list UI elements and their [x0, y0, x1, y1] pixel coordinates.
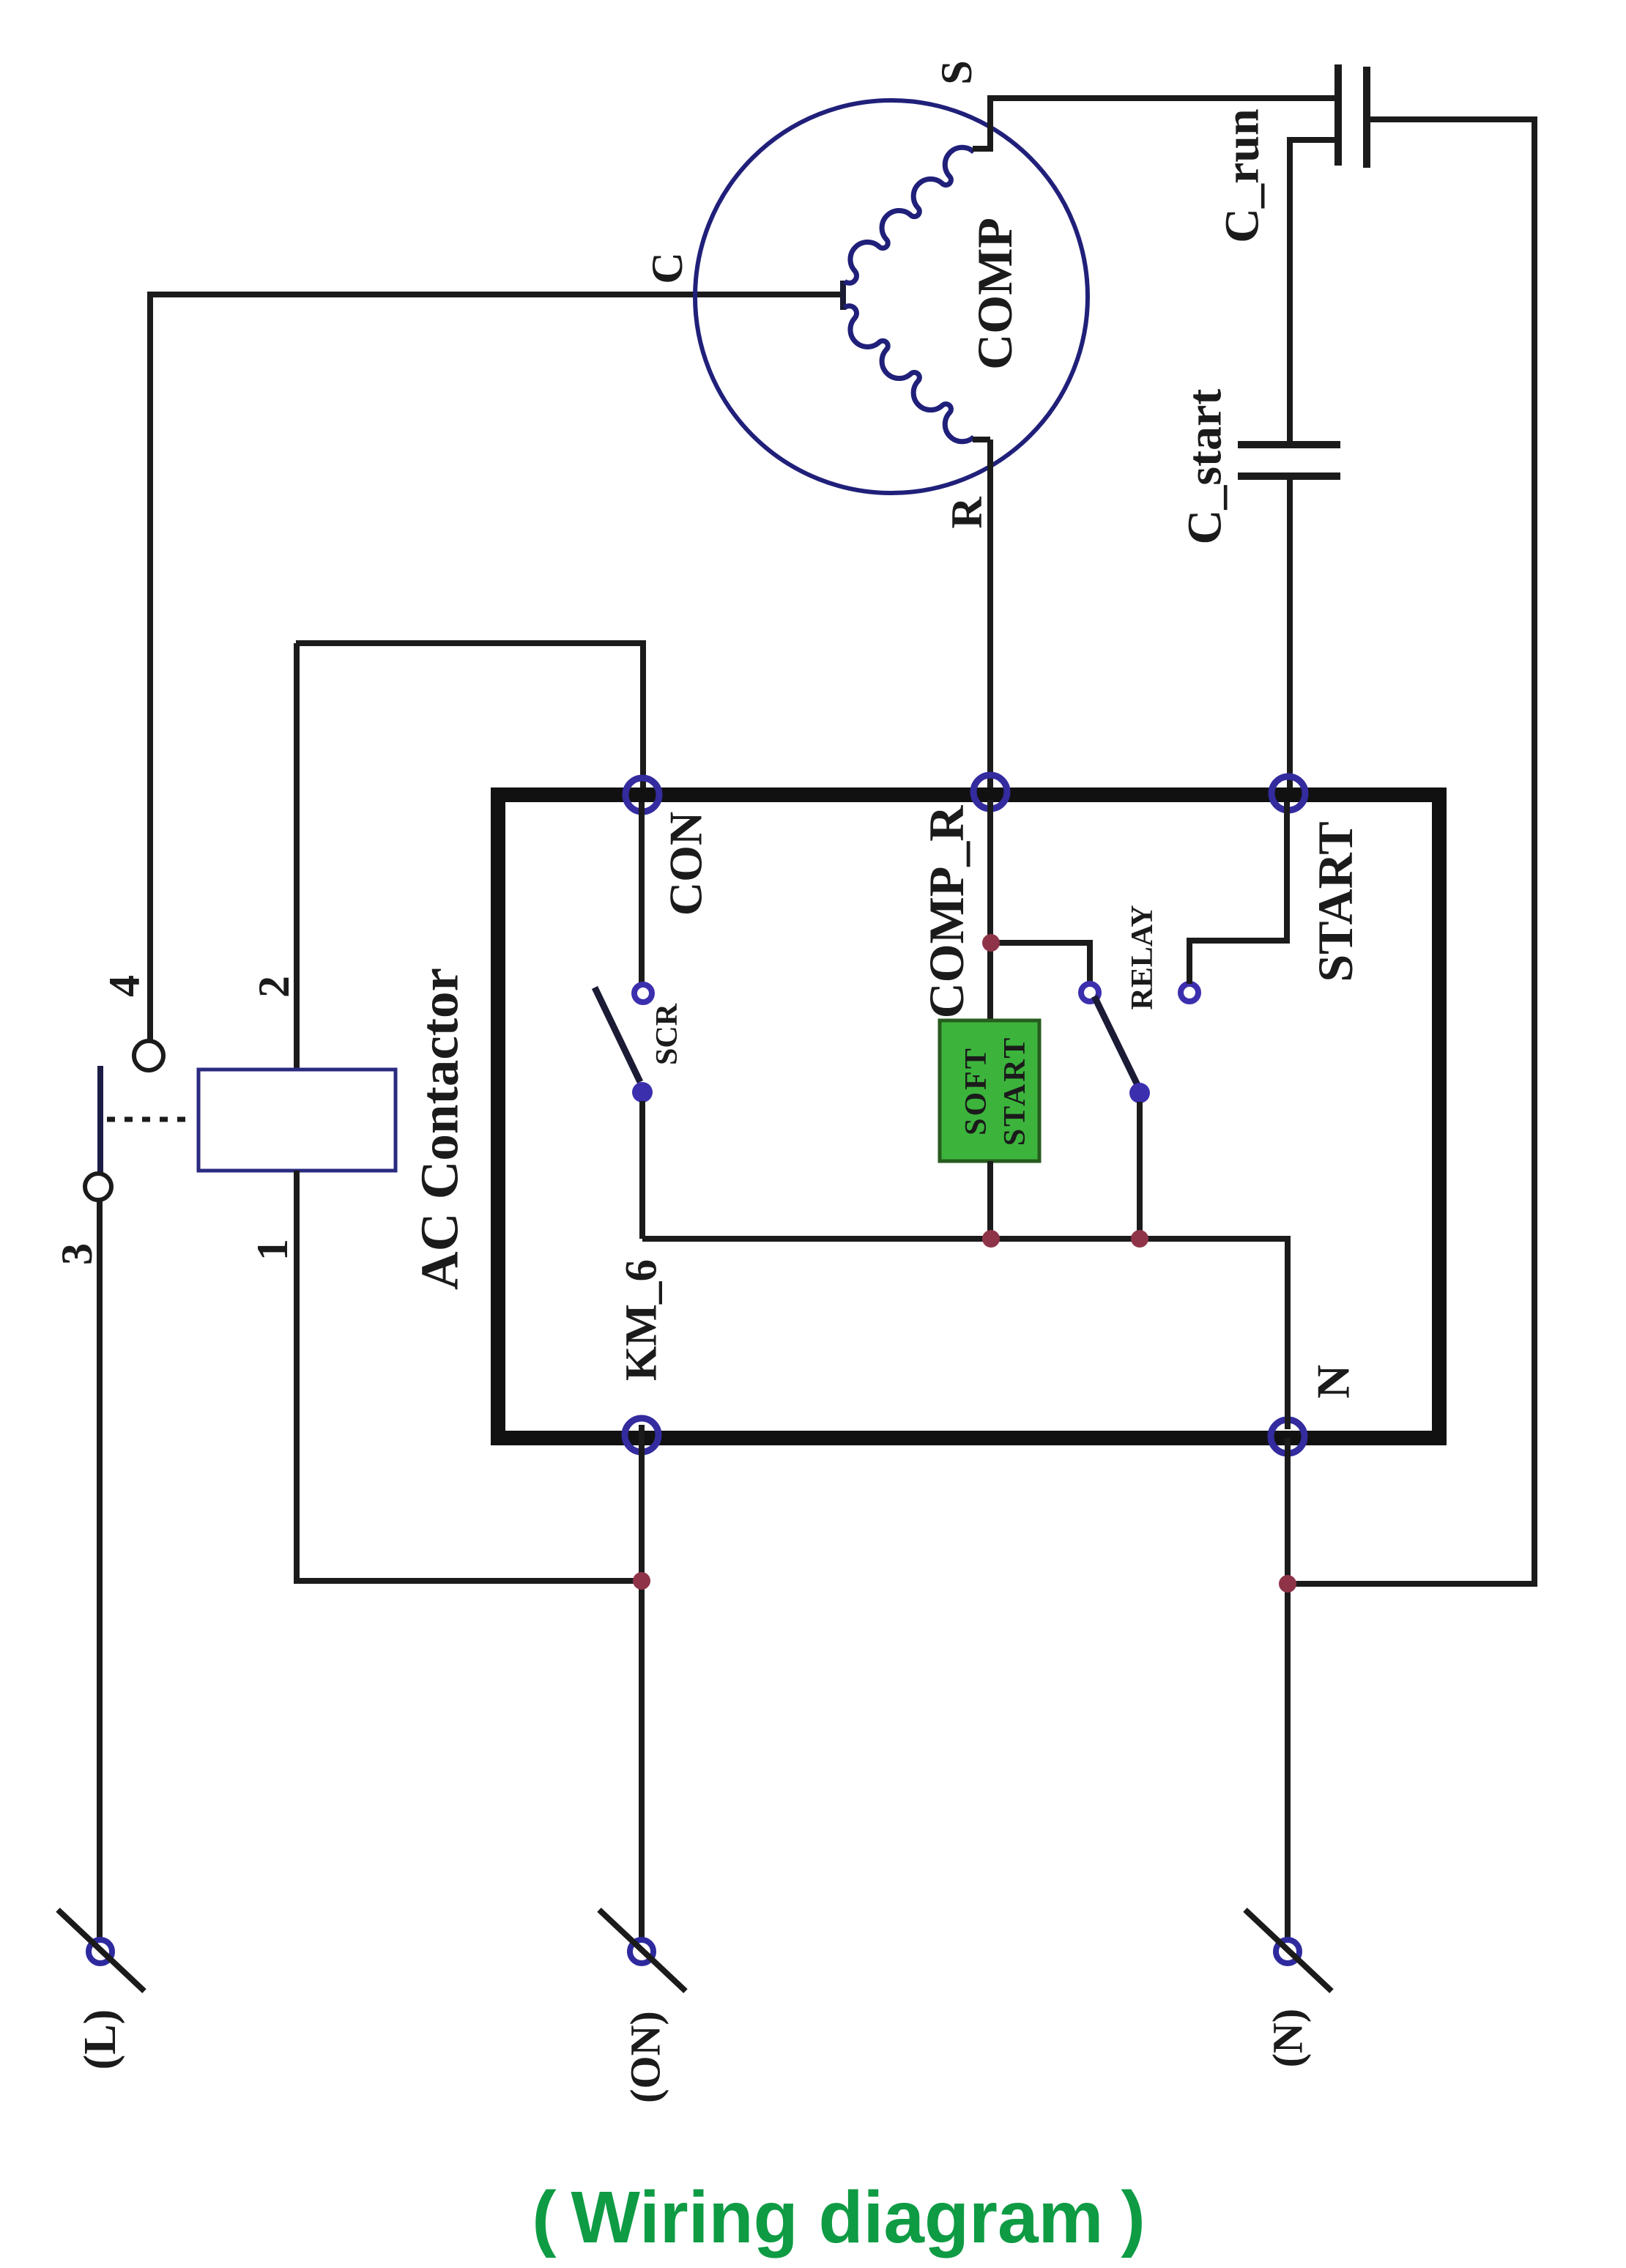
wire CON drop to SCR: [639, 802, 645, 984]
wire 2 vertical: [294, 643, 300, 1070]
control box: [498, 795, 1439, 1438]
wire relay common down: [1137, 1102, 1143, 1239]
SCR lower contact: [632, 1082, 653, 1102]
wire left drop to contact 4: [150, 294, 153, 1041]
wire R vertical to COMP_R terminal: [987, 440, 993, 791]
wire C_run right to edge: [1292, 119, 1534, 1584]
junction dot COMP_R branch: [982, 934, 1000, 952]
contact 3 circle: [85, 1174, 111, 1200]
terminal ON slash: [599, 1910, 686, 1991]
wire C_run left branch down: [1290, 140, 1335, 448]
AC contactor coil box: [198, 1070, 396, 1171]
svg-text:START: START: [1307, 821, 1363, 982]
svg-text:3: 3: [53, 1243, 101, 1265]
soft start box: [940, 1020, 1039, 1161]
junction dot soft start bottom: [982, 1230, 1000, 1248]
svg-text:KM_6: KM_6: [617, 1259, 667, 1381]
terminal CON: [625, 778, 659, 812]
relay left contact: [1081, 984, 1099, 1001]
AC contactor blade: [97, 1066, 103, 1172]
terminal N slash: [1245, 1910, 1332, 1991]
motor COMP circle: [695, 100, 1088, 493]
svg-text:R: R: [943, 497, 991, 529]
junction dot N column: [1279, 1575, 1296, 1593]
motor upper winding: [844, 147, 974, 283]
motor center tap bar: [840, 281, 846, 310]
relay right contact: [1181, 984, 1198, 1001]
svg-text:CON: CON: [660, 812, 712, 916]
svg-text:1: 1: [248, 1239, 297, 1261]
SCR upper contact: [634, 985, 652, 1002]
wire bottom inner run: [642, 1239, 1288, 1429]
junction dot KM_6 column: [633, 1572, 650, 1590]
svg-text:C: C: [643, 252, 691, 283]
terminal ON circle: [630, 1940, 653, 1963]
svg-text:SOFT: SOFT: [959, 1046, 993, 1135]
junction dot relay bottom: [1131, 1230, 1148, 1248]
relay common contact: [1129, 1083, 1150, 1103]
relay blade: [1094, 996, 1137, 1085]
wire corner from 2 to CON terminal: [296, 643, 643, 791]
wire relay right to START column: [1189, 802, 1287, 984]
svg-text:S: S: [932, 60, 981, 84]
svg-text:SCR: SCR: [650, 1003, 684, 1065]
capacitor C_start top plate: [1238, 441, 1340, 448]
svg-text:START: START: [998, 1036, 1032, 1146]
contact 4 circle: [134, 1041, 163, 1070]
svg-text:2: 2: [250, 976, 298, 998]
svg-text:(N): (N): [1264, 2009, 1312, 2068]
wire 3 down to L terminal: [97, 1198, 103, 1954]
terminal L slash: [58, 1910, 144, 1991]
svg-text:N: N: [1307, 1365, 1359, 1398]
svg-text:(ON): (ON): [622, 2011, 669, 2103]
wire C_start down to START terminal: [1287, 476, 1293, 791]
terminal L circle: [89, 1940, 112, 1963]
wire S to C_run: [987, 95, 1335, 101]
svg-text:RELAY: RELAY: [1126, 905, 1159, 1009]
AC contactor dashed link: [107, 1117, 194, 1122]
terminal S tick: [973, 146, 990, 152]
terminal R tick: [973, 437, 990, 442]
svg-text:C_run: C_run: [1216, 108, 1269, 242]
SCR blade: [595, 987, 640, 1082]
wire C horizontal from left corner to motor center tap: [150, 292, 841, 297]
capacitor C_run right plate: [1363, 67, 1370, 168]
svg-text:(L): (L): [75, 2009, 125, 2070]
terminal START: [1272, 777, 1305, 810]
capacitor C_start bottom plate: [1238, 472, 1340, 480]
wire soft start down: [987, 1161, 993, 1239]
wire N down to N terminal: [1285, 1438, 1291, 1954]
svg-text:C_start: C_start: [1178, 389, 1232, 545]
svg-text:(Wiring diagram): (Wiring diagram): [532, 2176, 1146, 2258]
svg-text:AC Contactor: AC Contactor: [410, 968, 469, 1290]
terminal KM_6: [625, 1418, 658, 1452]
wire COMP_R down to soft start: [987, 800, 993, 1023]
wire S vertical: [987, 98, 993, 152]
motor lower winding: [844, 306, 974, 442]
capacitor C_run left plate: [1334, 64, 1342, 166]
svg-text:COMP: COMP: [967, 218, 1022, 370]
svg-text:4: 4: [100, 975, 149, 997]
wire SCR down: [639, 1101, 645, 1239]
terminal N: [1271, 1420, 1304, 1453]
svg-text:COMP_R: COMP_R: [918, 805, 974, 1019]
terminal N circle: [1276, 1940, 1299, 1963]
wire 1 from coil to KM_6 column: [297, 1171, 642, 1581]
terminal COMP_R: [973, 775, 1007, 809]
wire KM_6 down to ON terminal: [639, 1425, 645, 1954]
wire branch to relay left: [991, 943, 1090, 984]
